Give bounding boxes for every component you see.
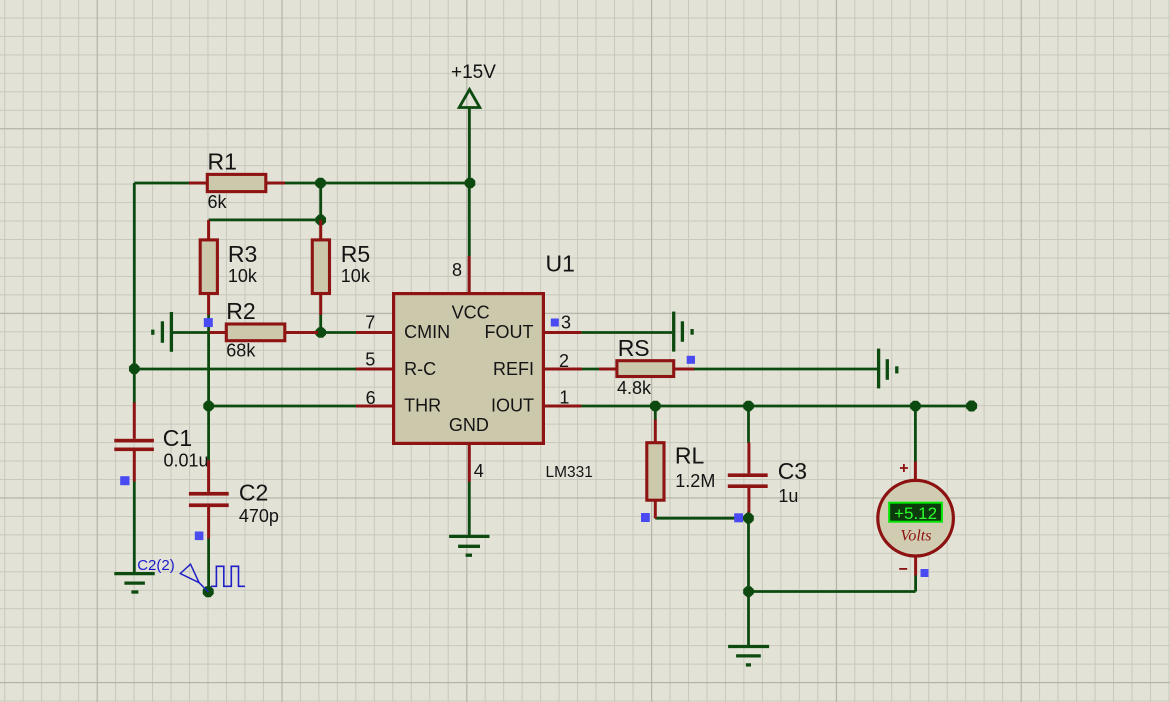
svg-text:Volts: Volts	[900, 528, 931, 545]
svg-text:LM331: LM331	[546, 464, 593, 481]
wire R3 top to R5 rail	[209, 218, 321, 221]
svg-text:4.8k: 4.8k	[617, 378, 652, 398]
svg-text:+15V: +15V	[451, 62, 496, 83]
svg-text:REFI: REFI	[493, 359, 534, 379]
node marker (blue) near C1	[120, 476, 129, 485]
power +15V	[451, 62, 496, 108]
svg-text:470p: 470p	[239, 506, 279, 526]
wire left rail vertical	[133, 183, 136, 369]
node junction IOUT/RL	[650, 401, 661, 412]
node junction left rail / R-C	[129, 363, 140, 374]
node marker (blue) near voltmeter minus	[921, 569, 929, 577]
wire U1 GND pin to ground	[468, 482, 471, 536]
op-amp U1 LM331 body	[394, 250, 593, 481]
pin 5 R-C stub	[356, 368, 394, 371]
svg-text:2: 2	[559, 351, 569, 371]
wire RS to right ground	[694, 368, 877, 371]
voltmeter U2	[878, 462, 954, 576]
pin 6 THR stub	[356, 405, 394, 408]
wire R5 bottom to CMIN net	[319, 315, 322, 333]
resistor R3	[200, 220, 258, 315]
svg-text:+5.12: +5.12	[894, 504, 937, 523]
wire RL top stub	[654, 406, 657, 420]
svg-text:R1: R1	[208, 148, 237, 174]
svg-text:10k: 10k	[228, 266, 258, 286]
pin 8 VCC stub	[468, 256, 471, 294]
wire +15V drop	[468, 108, 471, 184]
pin 3 FOUT stub	[543, 331, 581, 334]
svg-text:C3: C3	[778, 458, 807, 484]
resistor R2	[210, 298, 319, 360]
wire C2 bottom to probe node	[207, 538, 210, 592]
wire ground to R2 node	[172, 331, 210, 334]
probe C2(2)	[137, 557, 245, 592]
capacitor C2	[189, 460, 279, 538]
svg-text:5: 5	[365, 350, 375, 370]
wire from +15V node down to U1 VCC pin	[468, 183, 471, 256]
resistor R5	[312, 220, 371, 315]
ground under U1 pin 4	[449, 536, 489, 555]
wire voltmeter plus	[914, 406, 917, 462]
wire R2 right to CMIN	[318, 331, 357, 334]
svg-text:1: 1	[559, 388, 569, 408]
svg-text:IOUT: IOUT	[491, 395, 534, 415]
svg-text:7: 7	[365, 313, 375, 333]
capacitor C3	[728, 443, 807, 513]
svg-text:10k: 10k	[341, 266, 371, 286]
wire R-C row from left rail to pin 5	[134, 368, 356, 371]
ground under lower rail (C3 net)	[728, 647, 769, 665]
wire THR row from middle rail to pin 6	[209, 405, 356, 408]
node marker (blue) near R3/R2 junction	[204, 318, 213, 327]
wire from R1 left to left rail	[134, 182, 189, 185]
svg-text:R-C: R-C	[404, 359, 436, 379]
svg-text:3: 3	[561, 313, 571, 333]
node marker (blue) near C2	[195, 532, 204, 541]
svg-text:RL: RL	[675, 443, 705, 469]
svg-text:R5: R5	[341, 241, 370, 267]
ground right of FOUT (rotated, opens right)	[674, 312, 692, 352]
svg-text:6k: 6k	[208, 192, 228, 212]
node junction RL/C3 bottom	[743, 513, 754, 524]
node C2 probe point	[203, 586, 214, 597]
svg-text:6: 6	[366, 388, 376, 408]
svg-text:R2: R2	[226, 298, 255, 324]
node junction R2/R5/CMIN	[315, 327, 326, 338]
wire C1 top from rail node	[133, 369, 136, 403]
node junction THR	[203, 401, 214, 412]
resistor R1	[189, 148, 285, 212]
svg-text:RS: RS	[618, 335, 650, 361]
svg-text:C2(2): C2(2)	[137, 557, 175, 574]
svg-text:8: 8	[452, 260, 462, 280]
svg-text:68k: 68k	[226, 340, 256, 360]
svg-text:R3: R3	[228, 241, 257, 267]
node marker (blue) near C3 bottom	[734, 513, 743, 522]
svg-text:0.01u: 0.01u	[164, 450, 209, 470]
svg-text:4: 4	[474, 461, 484, 481]
node IOUT end terminal	[966, 401, 977, 412]
wire R1 right to +15V node	[285, 182, 471, 185]
ground right of RS (rotated, opens right)	[879, 349, 897, 389]
node marker (blue) near pin 3	[551, 319, 559, 327]
wire lower node to ground	[747, 592, 750, 647]
svg-text:FOUT: FOUT	[485, 322, 534, 342]
pin 4 GND stub	[468, 443, 471, 481]
svg-text:C1: C1	[163, 425, 192, 451]
svg-text:1u: 1u	[778, 486, 798, 506]
node junction R1/+15V	[465, 178, 476, 189]
pin 2 REFI stub	[543, 368, 581, 371]
wire FOUT to ground	[581, 331, 672, 334]
wire REFI to RS	[582, 368, 600, 371]
svg-text:VCC: VCC	[452, 303, 490, 323]
wire C3 top stub	[747, 406, 750, 443]
capacitor C1	[114, 403, 208, 482]
wire IOUT long net	[581, 405, 972, 408]
svg-text:U1: U1	[546, 250, 575, 276]
pin 1 IOUT stub	[543, 405, 581, 408]
svg-text:C2: C2	[239, 480, 268, 506]
node junction IOUT/voltmeter	[910, 401, 921, 412]
resistor RS	[599, 335, 694, 398]
ground left of R2 (rotated, opens left)	[153, 312, 172, 352]
wire R5 vertical between R1 net and R3 net	[319, 183, 322, 220]
resistor RL	[647, 420, 716, 519]
wire lower node to voltmeter minus	[749, 590, 916, 593]
node junction R1/R5	[315, 178, 326, 189]
pin 7 CMIN stub	[356, 331, 394, 334]
svg-text:CMIN: CMIN	[404, 322, 450, 342]
svg-text:1.2M: 1.2M	[675, 471, 715, 491]
svg-text:GND: GND	[449, 415, 489, 435]
node marker (blue) right of RS	[687, 356, 695, 364]
node junction lower rail	[743, 586, 754, 597]
ground under C1	[114, 574, 154, 592]
wire C1 bottom to ground	[133, 481, 136, 572]
wire voltmeter minus vertical	[914, 575, 917, 592]
wire middle vertical rail x=208.6	[207, 315, 210, 461]
node junction R3/R5	[315, 215, 326, 226]
wire C3 bottom to lower node	[747, 512, 750, 592]
svg-text:THR: THR	[404, 395, 441, 415]
wire RL bottom to C3 bottom node	[655, 517, 748, 520]
node junction IOUT/C3	[743, 401, 754, 412]
node marker (blue) near RL bottom	[641, 513, 650, 522]
